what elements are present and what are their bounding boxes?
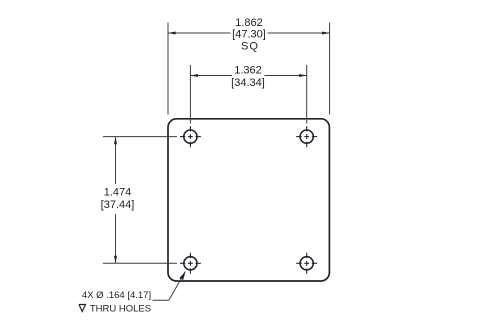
countersink symbol before THRU: [79, 305, 86, 312]
extension line right (hole spacing dim): [306, 65, 308, 124]
extension line right (overall width dim): [329, 23, 331, 115]
arrowhead left (overall width dim): [168, 32, 176, 35]
arrowhead bottom (vertical dim): [114, 256, 117, 264]
arrowhead top (vertical dim): [114, 137, 117, 145]
hole H3 bottom-left: [180, 253, 201, 274]
hole H2 top-right: [296, 126, 317, 147]
extension line left (hole spacing dim): [189, 65, 191, 124]
svg-text:1.474: 1.474: [104, 187, 132, 199]
svg-text:4X Ø .164 [4.17]: 4X Ø .164 [4.17]: [82, 290, 151, 301]
svg-text:1.862: 1.862: [235, 17, 263, 29]
dimension line hole spacing horizontal: [190, 75, 306, 77]
leader arrowhead: [179, 272, 185, 280]
arrowhead right (hole spacing dim): [299, 74, 307, 77]
dimension line hole spacing vertical: [115, 137, 117, 264]
hole H1 top-left: [180, 126, 201, 147]
extension line left (overall width dim): [167, 23, 169, 115]
svg-text:[34.34]: [34.34]: [231, 77, 265, 89]
dimension line overall width: [168, 32, 330, 34]
extension line top (hole spacing vertical dim): [103, 136, 177, 138]
hole H4 bottom-right: [296, 253, 317, 274]
svg-text:THRU HOLES: THRU HOLES: [90, 303, 151, 314]
arrowhead left (hole spacing dim): [190, 74, 198, 77]
arrowhead right (overall width dim): [322, 32, 330, 35]
plate outline: [168, 119, 329, 281]
svg-text:[37.44]: [37.44]: [101, 199, 135, 211]
svg-text:SQ: SQ: [241, 41, 259, 53]
leader line to note: [153, 272, 186, 301]
svg-text:[47.30]: [47.30]: [232, 28, 266, 40]
extension line bottom (hole spacing vertical dim): [103, 262, 177, 264]
svg-text:1.362: 1.362: [234, 64, 262, 76]
